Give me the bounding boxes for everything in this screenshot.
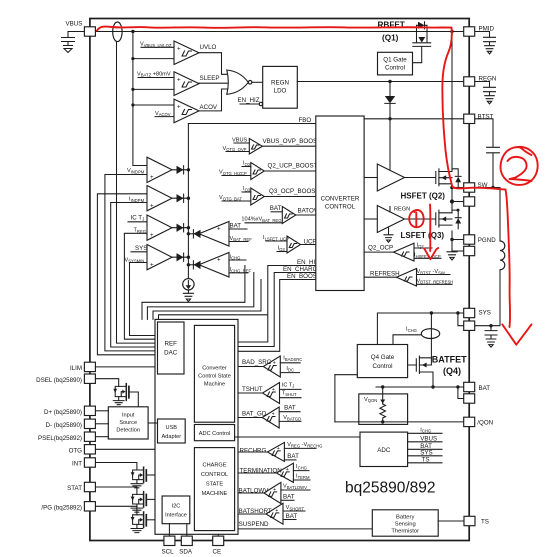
svg-text:BAT: BAT xyxy=(286,513,298,520)
svg-text:LDO: LDO xyxy=(274,88,287,95)
wire PGND tap1 xyxy=(452,239,464,241)
wire tap to UVLO lower input xyxy=(133,58,174,60)
block tall digital core xyxy=(155,319,238,534)
wire Q2_UCP input2 xyxy=(222,175,251,177)
svg-text:Q2_OCP: Q2_OCP xyxy=(368,245,393,252)
wire VBUS_OVP input1 xyxy=(234,142,249,144)
svg-text:REGN: REGN xyxy=(394,207,410,213)
node BTST junction xyxy=(388,117,391,120)
svg-text:+: + xyxy=(277,446,280,452)
wire REFRESH output xyxy=(364,276,396,278)
pin BAT1 xyxy=(464,382,475,391)
diode IINDPM to bus xyxy=(172,197,188,199)
comparator error amp thermal TREG xyxy=(147,215,172,240)
comparator BATSHORT xyxy=(266,503,283,524)
pin VBUS xyxy=(84,27,95,36)
svg-text:Machine: Machine xyxy=(204,382,225,388)
wire bus L6 VSYSMIN xyxy=(130,263,156,336)
svg-text:+: + xyxy=(217,226,221,233)
pin D+ xyxy=(84,406,95,415)
comparator UCP xyxy=(287,236,301,253)
svg-text:ACOV: ACOV xyxy=(200,104,218,111)
block CHARGE CONTROL STATE MACHINE xyxy=(194,448,234,531)
transistor PG FET xyxy=(131,512,155,533)
comparator BAT clamp xyxy=(199,222,229,247)
svg-text:Control: Control xyxy=(373,363,393,370)
svg-text:IC TJ: IC TJ xyxy=(282,382,295,388)
block Q4 Gate Control xyxy=(357,345,407,378)
wire BTST external to bootstrap cap xyxy=(475,119,493,147)
svg-text:ITERM: ITERM xyxy=(296,474,310,480)
node QON route xyxy=(334,374,336,376)
comparator error amp VINDPM xyxy=(147,157,172,182)
wire converter to HSFET driver xyxy=(364,177,377,179)
svg-text:PMID: PMID xyxy=(479,25,495,32)
pin DSEL xyxy=(84,374,95,383)
wire EN_CHARGE wrap xyxy=(238,273,316,347)
red annotation circled 2 xyxy=(501,147,538,185)
node bootstrap-SW xyxy=(491,186,494,189)
wire SYS pin2 link xyxy=(458,313,464,326)
svg-text:BAT: BAT xyxy=(270,205,282,212)
wire TERMINATION output xyxy=(238,472,276,474)
wire BATLOWV in2 xyxy=(281,499,294,501)
svg-text:UVLO: UVLO xyxy=(200,44,217,51)
node tap SLEEP xyxy=(131,88,134,91)
wire Q3_OCP input2 xyxy=(222,200,251,202)
block REF DAC xyxy=(158,322,185,374)
comparator error amp VSYSMIN xyxy=(147,245,172,270)
svg-text:Control State: Control State xyxy=(198,374,231,380)
svg-text:VSHORT: VSHORT xyxy=(286,505,305,511)
pin PGND1 xyxy=(464,235,475,244)
wire BATOVP input1 xyxy=(271,211,282,213)
wire Q2_OCP input1 xyxy=(414,247,432,249)
ground PMID cap xyxy=(485,46,495,54)
pin REGN xyxy=(464,77,475,86)
wire ADC Control to ADC xyxy=(235,436,360,438)
comparator Q2_UCP_BOOST xyxy=(251,163,264,180)
svg-text:+: + xyxy=(286,467,289,473)
comparator error amp IINDPM xyxy=(147,186,172,211)
wire Q4 left link xyxy=(335,374,357,376)
wire PMID down to HSFET drain xyxy=(451,32,453,172)
wire bus L5 TREG xyxy=(124,233,155,339)
wire SYS cap lead xyxy=(490,326,492,330)
svg-text:REGN: REGN xyxy=(271,80,289,87)
ground bias xyxy=(183,293,193,301)
wire EN_HIZ into LDO xyxy=(240,103,259,105)
svg-text:OTG: OTG xyxy=(69,447,83,454)
svg-text:Source: Source xyxy=(119,420,137,426)
driver LSFET xyxy=(377,206,404,233)
svg-text:(Q4): (Q4) xyxy=(443,366,461,376)
block REGN LDO xyxy=(263,66,298,108)
wire SLEEP output to OR xyxy=(199,82,229,84)
wire adc out2 xyxy=(408,441,442,443)
wire bias to ground xyxy=(187,290,189,293)
current source bias xyxy=(183,279,194,290)
block Q1 Gate Control xyxy=(378,52,413,75)
transistor Q1 RBFET body diode xyxy=(417,22,428,32)
wire Q2_UCP input1 xyxy=(242,166,251,168)
wire FBO feedback bus xyxy=(188,123,315,125)
svg-text:VREG -VRECHG: VREG -VRECHG xyxy=(287,442,322,448)
pin /PG xyxy=(84,502,95,511)
wire REFRESH input1 xyxy=(417,274,451,276)
wire TSHUT in1 xyxy=(280,388,302,390)
node PGND junction xyxy=(450,238,453,241)
wire PGND tap2 xyxy=(452,250,464,252)
comparator VBUS_OVP_BOOST xyxy=(249,139,262,155)
red annotation vertical down right xyxy=(442,28,505,190)
wire BAT pin2 link xyxy=(458,387,464,399)
svg-text:+: + xyxy=(177,104,181,111)
svg-text:SYS: SYS xyxy=(420,449,432,456)
wire cap to SW rail xyxy=(492,153,494,187)
wire Q2_OCP output xyxy=(364,251,393,253)
svg-text:TSHUT: TSHUT xyxy=(242,386,263,393)
svg-text:REGN: REGN xyxy=(479,75,497,82)
wire BATLOWV output xyxy=(238,492,264,494)
wire Dplus xyxy=(95,410,108,412)
wire Q3 source to PGND xyxy=(451,231,453,251)
wire REGN output rail to REGN pin xyxy=(297,81,463,83)
svg-text:RECHRG: RECHRG xyxy=(240,447,267,454)
pin SYS2 xyxy=(464,321,475,330)
wire BATOVP input2 xyxy=(245,222,282,224)
svg-text:/QON: /QON xyxy=(477,419,493,426)
svg-text:EN_HIZ: EN_HIZ xyxy=(238,97,260,104)
diode VSYSMIN to bus xyxy=(172,256,188,258)
wire BATSHORT output xyxy=(238,513,266,515)
svg-text:PGND: PGND xyxy=(478,237,496,244)
wire BATSHORT in2 xyxy=(283,519,296,521)
gate OR (NOR) sleep logic xyxy=(227,70,249,94)
svg-text:D+ (bq25890): D+ (bq25890) xyxy=(44,409,82,416)
pin SCL xyxy=(164,536,175,545)
svg-text:+: + xyxy=(150,203,154,210)
pin CE xyxy=(213,536,224,545)
wire BATSHORT in1 xyxy=(283,510,305,512)
pin PSEL xyxy=(84,432,95,441)
block Input Source Detection xyxy=(108,407,148,439)
ground REGN cap xyxy=(485,96,495,104)
capacitor REGN xyxy=(484,87,496,95)
svg-text:/PG (bq25892): /PG (bq25892) xyxy=(41,504,82,511)
svg-text:104%xVBAT_REG: 104%xVBAT_REG xyxy=(241,217,281,223)
wire UCP input1 xyxy=(266,240,287,242)
svg-text:CONTROL: CONTROL xyxy=(201,472,228,478)
svg-text:TS: TS xyxy=(481,519,489,526)
svg-text:+: + xyxy=(275,508,278,514)
wire Q3_OCP output xyxy=(264,196,316,198)
svg-text:+: + xyxy=(217,257,221,264)
wire Q2_UCP output xyxy=(264,170,316,172)
wire BAT_GD in2 xyxy=(279,420,301,422)
svg-text:USB: USB xyxy=(166,425,178,431)
svg-text:BAT_GD: BAT_GD xyxy=(242,411,267,418)
svg-text:Sensing: Sensing xyxy=(395,521,416,527)
svg-text:Q3_OCP_BOOST: Q3_OCP_BOOST xyxy=(269,188,319,195)
pin D- xyxy=(84,419,95,428)
svg-text:ADC: ADC xyxy=(377,447,391,454)
wire VBUS_OVP input2 xyxy=(226,151,249,153)
svg-text:ICHG: ICHG xyxy=(406,327,417,333)
svg-text:IBADSRC: IBADSRC xyxy=(283,356,302,362)
sense ellipse ICHG xyxy=(421,329,439,339)
svg-text:CONVERTER: CONVERTER xyxy=(321,196,360,203)
wire BAD_SRC in1 xyxy=(280,362,300,364)
wire SLEEP threshold input xyxy=(138,77,174,79)
current sense ellipse on VBUS xyxy=(113,22,122,42)
node BATFET source xyxy=(431,385,434,388)
wire LSFET driver ground stub xyxy=(388,227,390,235)
ground SYS cap xyxy=(486,339,496,347)
wire REGN external cap xyxy=(475,82,490,87)
wire EN_BOOST wrap xyxy=(238,280,316,352)
svg-text:bq25890/892: bq25890/892 xyxy=(345,480,436,497)
wire bus L3 IINDPM- xyxy=(111,203,155,348)
node SYS ext junction xyxy=(489,324,492,327)
svg-text:STAT: STAT xyxy=(67,485,82,492)
svg-text:I2C: I2C xyxy=(172,504,181,510)
transistor HSFET Q2 xyxy=(435,172,437,184)
pin SW2 xyxy=(464,197,475,206)
node REGN to bootstrap diode xyxy=(388,80,391,83)
wire TSHUT output xyxy=(238,392,263,394)
capacitor PMID xyxy=(484,37,496,45)
transistor BATFET Q4 xyxy=(415,359,417,371)
svg-text:ADC Control: ADC Control xyxy=(199,431,230,437)
svg-text:STATE: STATE xyxy=(206,482,223,488)
wire ICHG sense xyxy=(393,335,422,345)
svg-text:+: + xyxy=(273,487,276,493)
node SYS pin2 link xyxy=(456,311,459,314)
wire Q2 source to Q3 drain xyxy=(451,184,453,213)
svg-text:IQ3: IQ3 xyxy=(243,186,251,192)
wire SYS input xyxy=(131,251,147,253)
ground VBUS cap xyxy=(64,46,73,53)
svg-text:Q1 Gate: Q1 Gate xyxy=(383,57,407,64)
block Converter Control State Machine xyxy=(194,325,234,422)
svg-text:VBATZ +80mV: VBATZ +80mV xyxy=(137,71,171,77)
wire REGN stub to LSFET driver xyxy=(389,207,391,213)
transistor DSEL detect FET xyxy=(113,384,138,407)
wire SW tap1 xyxy=(452,187,464,189)
wire TERM in1 xyxy=(293,470,309,472)
body diode Q3 xyxy=(452,210,461,229)
wire ILIM xyxy=(95,366,155,368)
wire BTST rail xyxy=(364,118,464,120)
svg-text:TREG: TREG xyxy=(134,228,147,234)
wire adc out4 xyxy=(408,455,442,457)
red annotation descent to arrow xyxy=(506,190,511,328)
comparator SLEEP xyxy=(174,72,199,96)
comparator Q2_OCP xyxy=(394,243,415,261)
red annotation squiggle across top xyxy=(97,27,452,31)
comparator TERMINATION xyxy=(276,463,293,482)
red annotation arrow down at LSFET xyxy=(429,205,431,252)
diode VINDPM to bus xyxy=(172,169,188,171)
svg-text:DAC: DAC xyxy=(164,350,178,357)
ground LSFET driver xyxy=(384,235,393,243)
wire Dminus xyxy=(95,423,108,425)
comparator ICHG clamp xyxy=(199,253,229,278)
transistor Q1 RBFET xyxy=(413,32,431,63)
wire bus L2 VINDPM- xyxy=(105,175,155,351)
wire BAD_SRC output xyxy=(238,366,263,368)
svg-text:Converter: Converter xyxy=(202,366,227,372)
wire bus L1 IINDPM+ xyxy=(97,194,155,355)
block ADC xyxy=(360,432,408,466)
red annotation circled 1 xyxy=(409,210,423,227)
diode bootstrap D1 xyxy=(385,96,395,103)
svg-text:IDC: IDC xyxy=(286,366,294,372)
wire VBUS sense vertical x=133 xyxy=(133,32,147,166)
wire /QON xyxy=(335,421,464,423)
svg-text:SUSPEND: SUSPEND xyxy=(239,521,269,528)
wire HSFET driver output xyxy=(405,177,436,179)
transistor LSFET Q3 xyxy=(435,213,437,225)
wire TERM in2 xyxy=(293,479,310,481)
diode TREG to bus xyxy=(172,227,188,229)
resistor VQON xyxy=(380,404,386,422)
svg-text:Q4 Gate: Q4 Gate xyxy=(371,354,395,361)
wire BAT rail xyxy=(376,386,464,388)
wire PG xyxy=(95,506,136,515)
wire ICHG clamp input2 xyxy=(229,272,248,274)
svg-text:Battery: Battery xyxy=(396,514,414,520)
svg-text:MACHINE: MACHINE xyxy=(202,491,228,497)
wire thermistor to TS xyxy=(438,520,464,522)
wire adc out1 xyxy=(408,432,442,434)
svg-text:INT: INT xyxy=(72,460,82,467)
svg-text:Detection: Detection xyxy=(116,428,140,434)
pin SW1 xyxy=(464,183,475,192)
pin PGND2 xyxy=(464,246,475,255)
svg-text:VBATLOWV: VBATLOWV xyxy=(283,484,307,490)
transistor STAT FET xyxy=(131,492,155,513)
node VBUS junction xyxy=(131,30,134,33)
wire INT xyxy=(95,463,136,471)
svg-text:Q2_UCP_BOOST: Q2_UCP_BOOST xyxy=(268,162,318,169)
wire Q2_OCP input2 xyxy=(414,257,441,259)
svg-text:IQ2: IQ2 xyxy=(243,161,251,167)
comparator BATLOWV xyxy=(264,482,281,503)
comparator BAD_SRC xyxy=(263,356,280,377)
block CONVERTER CONTROL xyxy=(316,116,364,291)
wire DSEL xyxy=(95,379,118,387)
wire REGN supply down to HSFET driver xyxy=(389,119,391,171)
node SW junction1 xyxy=(450,186,454,190)
wire BAT clamp input2 xyxy=(229,241,248,243)
svg-text:BAT: BAT xyxy=(284,405,296,412)
svg-text:+: + xyxy=(177,77,181,84)
capacitor bootstrap xyxy=(487,147,500,153)
wire QON route branch xyxy=(334,375,336,422)
comparator ACOV xyxy=(174,99,199,123)
wire nest path A xyxy=(142,266,245,320)
wire UVLO threshold input xyxy=(141,46,174,48)
pin BAT2 xyxy=(464,394,475,403)
node VQON bottom xyxy=(381,420,384,423)
capacitor SYS xyxy=(485,331,497,339)
svg-text:(Q1): (Q1) xyxy=(382,34,399,43)
ground power stage xyxy=(447,252,457,260)
svg-text:VSYSMIN: VSYSMIN xyxy=(125,257,145,263)
svg-text:VOTG_BAT: VOTG_BAT xyxy=(219,195,242,201)
block USB Adapter xyxy=(158,419,186,443)
wire BAT clamp input1 xyxy=(229,228,247,230)
wire BAD_SRC in2 xyxy=(280,372,299,374)
svg-text:BAD_SRC: BAD_SRC xyxy=(242,359,272,366)
wire ACOV output to OR xyxy=(199,89,227,111)
svg-text:BATFET: BATFET xyxy=(432,355,467,365)
svg-text:SLEEP: SLEEP xyxy=(200,75,220,82)
body diode Q2 xyxy=(452,169,461,188)
svg-text:+: + xyxy=(272,411,275,417)
svg-text:D- (bq25890): D- (bq25890) xyxy=(46,422,82,429)
svg-text:BTST: BTST xyxy=(478,113,494,120)
wire BATOVP output xyxy=(296,214,316,216)
svg-text:BAT: BAT xyxy=(283,493,295,500)
svg-text:HSFET (Q2): HSFET (Q2) xyxy=(401,191,446,200)
wire SW external xyxy=(475,188,500,242)
wire SUSPEND xyxy=(238,528,372,530)
wire IC TJ input xyxy=(128,221,147,223)
wire VBUS external cap lead xyxy=(67,32,69,37)
pin ILIM xyxy=(84,362,95,371)
wire UCP input2 xyxy=(277,251,287,253)
wire CE riser xyxy=(217,534,219,536)
wire BAT_GD output xyxy=(238,417,262,419)
svg-text:CHARGE: CHARGE xyxy=(203,463,227,469)
wire ISD to USB adapter xyxy=(148,422,157,424)
wire BAT_GD in1 xyxy=(279,411,300,413)
svg-text:+: + xyxy=(150,262,154,269)
wire LSFET driver output xyxy=(405,218,436,220)
wire VBUS_OVP output xyxy=(262,145,316,147)
wire BATFET drain xyxy=(419,313,431,358)
wire tap to ACOV upper input xyxy=(133,104,174,106)
wire TSHUT in2 xyxy=(280,397,302,399)
block ADC Control xyxy=(194,425,234,441)
inductor L1 xyxy=(500,241,505,270)
block VQON xyxy=(359,394,408,425)
wire ICHG clamp input1 xyxy=(229,259,246,261)
pin STAT xyxy=(84,482,95,491)
svg-text:FBO: FBO xyxy=(299,117,312,124)
wire EN_HIZ wrap xyxy=(238,266,316,343)
svg-text:CONTROL: CONTROL xyxy=(325,204,356,211)
svg-text:TS: TS xyxy=(422,456,430,463)
svg-text:Thermistor: Thermistor xyxy=(391,528,419,534)
comparator RECHRG xyxy=(267,442,284,461)
wire BATLOWV in1 xyxy=(281,489,310,491)
wire STAT xyxy=(95,487,136,494)
node SW junction2 xyxy=(450,199,454,203)
wire VBUS input rail xyxy=(68,31,464,33)
comparator REFRESH xyxy=(397,269,417,287)
comparator TSHUT xyxy=(263,383,280,404)
diode BAT clamp to bus xyxy=(188,233,199,235)
svg-text:VBTST_REFRESH: VBTST_REFRESH xyxy=(417,278,454,284)
svg-text:SDA: SDA xyxy=(179,549,193,556)
transistor INT FET xyxy=(131,467,155,488)
wire UVLO output to OR xyxy=(199,53,228,75)
svg-text:VBUS_OVP_BOOST: VBUS_OVP_BOOST xyxy=(263,138,322,145)
